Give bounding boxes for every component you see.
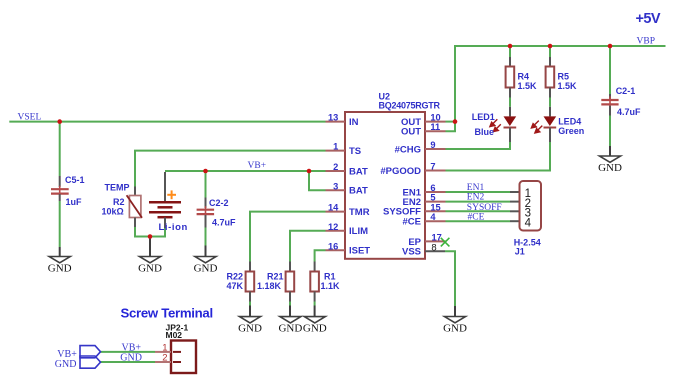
wire EN2 to J1	[446, 201, 511, 203]
label TEMP	[105, 182, 130, 192]
net label VSEL	[18, 112, 42, 122]
svg-text:R5: R5	[558, 71, 570, 81]
pin 6 EN1	[403, 183, 446, 198]
ground under R1	[303, 306, 327, 335]
svg-text:#CE: #CE	[403, 217, 421, 228]
node junction VSEL / C5-1 tap	[57, 119, 62, 124]
svg-text:16: 16	[328, 241, 338, 251]
node junction OUT pins	[453, 119, 458, 124]
wire rail to R5	[549, 46, 551, 57]
svg-text:EN1: EN1	[467, 183, 485, 193]
resistor R5	[546, 57, 577, 98]
ground under VSS	[443, 306, 467, 334]
svg-text:TEMP: TEMP	[105, 182, 130, 192]
svg-text:4.7uF: 4.7uF	[617, 107, 641, 117]
svg-text:10: 10	[430, 113, 440, 123]
pin 12 ILIM	[326, 222, 369, 237]
svg-text:Li-ion: Li-ion	[159, 222, 188, 233]
wire VBP rail	[455, 46, 666, 122]
capacitor C5-1	[51, 175, 85, 207]
thermistor R2	[102, 187, 143, 228]
resistor R22	[227, 262, 255, 302]
svg-text:9: 9	[430, 140, 435, 150]
svg-text:7: 7	[430, 162, 435, 172]
pin 14 TMR	[326, 203, 370, 218]
LED LED4 Green	[531, 107, 584, 142]
svg-text:M02: M02	[166, 330, 183, 340]
svg-text:4: 4	[525, 217, 532, 229]
svg-text:1uF: 1uF	[66, 197, 83, 207]
svg-text:GND: GND	[303, 322, 327, 334]
svg-text:GND: GND	[120, 353, 142, 364]
svg-text:8: 8	[431, 243, 436, 254]
net label VB+	[248, 161, 267, 171]
resistor R4	[506, 57, 537, 98]
net label #CE	[468, 212, 485, 222]
svg-text:Blue: Blue	[475, 127, 495, 137]
wire ILIM to R21	[290, 231, 326, 262]
svg-text:GND: GND	[238, 322, 262, 334]
svg-text:2: 2	[333, 162, 338, 172]
wire EN1 to J1	[446, 191, 511, 193]
svg-text:#CHG: #CHG	[395, 144, 421, 155]
svg-text:15: 15	[430, 202, 440, 212]
wire ISET to R1	[315, 250, 326, 261]
pin 16 ISET	[326, 241, 371, 256]
wire LED1 to pin9 #CHG	[446, 142, 511, 149]
wire R22 to ground	[249, 302, 251, 306]
svg-text:GND: GND	[194, 262, 218, 274]
battery BT Li-ion	[149, 172, 188, 233]
pin 3 BAT	[326, 181, 369, 196]
resistor R1	[310, 262, 340, 302]
svg-text:1: 1	[333, 142, 338, 152]
svg-text:R4: R4	[518, 71, 530, 81]
LED LED1 Blue	[472, 107, 516, 142]
wire R1 to ground	[314, 302, 316, 306]
power label +5V	[636, 11, 661, 27]
svg-text:ISET: ISET	[349, 246, 370, 257]
svg-text:C2-2: C2-2	[209, 198, 229, 208]
svg-text:#PGOOD: #PGOOD	[380, 166, 421, 177]
svg-text:14: 14	[328, 203, 339, 213]
wire C2-1 lower	[609, 116, 611, 147]
wire OUT pin11 riser	[446, 122, 456, 132]
net label VBP	[637, 37, 655, 47]
svg-text:#CE: #CE	[468, 212, 485, 222]
svg-text:GND: GND	[55, 359, 77, 370]
ground under R22	[238, 306, 262, 335]
svg-text:11: 11	[430, 122, 440, 132]
wire BAT pin3 jog	[309, 171, 326, 190]
op-amp U2 body BQ24075RGTR	[345, 92, 441, 259]
resistor R21	[257, 262, 294, 302]
pin 17 EP	[408, 232, 445, 248]
svg-text:C2-1: C2-1	[616, 86, 636, 96]
svg-text:R2: R2	[113, 197, 125, 207]
ground under battery	[138, 237, 162, 275]
svg-text:EN2: EN2	[467, 193, 485, 203]
svg-text:J1: J1	[515, 246, 525, 256]
wire #CE to J1	[446, 220, 511, 222]
pin 7 #PGOOD	[380, 162, 445, 177]
svg-text:GND: GND	[598, 162, 622, 174]
svg-text:BAT: BAT	[349, 186, 368, 197]
svg-text:GND: GND	[138, 262, 162, 274]
wire R5 to LED4	[549, 98, 551, 107]
ground under C2-1	[598, 146, 622, 174]
svg-text:IN: IN	[349, 117, 359, 128]
global label GND	[55, 356, 101, 370]
pin 11 OUT	[401, 122, 446, 137]
svg-text:LED1: LED1	[472, 112, 495, 122]
connector JP2-1 M02	[155, 322, 196, 373]
svg-text:12: 12	[328, 222, 338, 232]
node junction rail R5 top	[548, 44, 553, 49]
svg-text:6: 6	[430, 183, 435, 193]
svg-text:ILIM: ILIM	[349, 226, 368, 237]
svg-text:4: 4	[430, 212, 436, 222]
svg-text:SYSOFF: SYSOFF	[467, 203, 502, 213]
svg-text:TS: TS	[349, 146, 361, 157]
label Screw Terminal	[121, 306, 213, 321]
wire JP2 pin1	[100, 351, 156, 353]
svg-text:10kΩ: 10kΩ	[102, 206, 124, 216]
ground under R21	[278, 306, 302, 335]
svg-text:2: 2	[162, 353, 167, 364]
svg-text:3: 3	[333, 181, 338, 191]
svg-text:C5-1: C5-1	[65, 175, 85, 185]
svg-text:VB+: VB+	[248, 161, 267, 171]
pin 1 TS	[326, 142, 362, 157]
net label EN2	[467, 193, 485, 203]
net label VB+ (wire 1)	[122, 342, 142, 353]
wire SYSOFF to J1	[446, 210, 511, 212]
wire rail to C2-1	[609, 46, 611, 94]
wire OUT pin10 to rail	[446, 121, 456, 123]
svg-text:GND: GND	[443, 322, 467, 334]
global label VB+	[57, 346, 100, 360]
wire VSEL to pin 13	[9, 121, 325, 123]
pin 13 IN	[326, 113, 359, 128]
svg-text:1.1K: 1.1K	[321, 281, 341, 291]
wire JP2 pin2	[100, 361, 156, 363]
pin 5 EN2	[403, 193, 446, 208]
svg-text:GND: GND	[278, 322, 302, 334]
pin 10 OUT	[401, 113, 446, 128]
node junction VB+ BAT jog	[307, 169, 312, 174]
wire C2-2 upper	[205, 171, 207, 198]
node junction rail C2-1 top	[608, 44, 613, 49]
wire TS to thermistor	[135, 151, 326, 187]
svg-text:13: 13	[328, 113, 338, 123]
svg-text:VSS: VSS	[402, 247, 421, 258]
wire thermistor to bottom node	[135, 227, 165, 237]
svg-text:TMR: TMR	[349, 207, 370, 218]
wire VB+ rail	[165, 170, 326, 172]
node junction battery GND	[148, 234, 153, 239]
node junction VB+ C2-2 tap	[203, 169, 208, 174]
pin 4 #CE	[403, 212, 446, 227]
net label SYSOFF	[467, 203, 502, 213]
wire C5-1 lower	[59, 201, 61, 247]
net label GND (wire 2)	[120, 353, 142, 364]
node junction rail R4 top	[508, 44, 513, 49]
wire R4 to LED1	[509, 98, 511, 107]
svg-text:Screw Terminal: Screw Terminal	[121, 306, 213, 321]
connector J1 H-2.54	[510, 181, 541, 256]
svg-text:OUT: OUT	[401, 127, 421, 138]
wire LED4 to pin7 #PGOOD	[446, 142, 551, 171]
svg-text:1.18K: 1.18K	[257, 281, 282, 291]
svg-text:5: 5	[430, 193, 435, 203]
ground under C2-2	[194, 246, 218, 275]
capacitor C2-1	[601, 86, 641, 117]
svg-text:47K: 47K	[227, 281, 244, 291]
pin 2 BAT	[326, 162, 369, 177]
capacitor C2-2	[197, 198, 236, 228]
wire rail to R4	[509, 46, 511, 57]
wire R21 to ground	[289, 302, 291, 306]
svg-text:BQ24075RGTR: BQ24075RGTR	[379, 101, 441, 111]
svg-text:1.5K: 1.5K	[518, 81, 538, 91]
pin 8 VSS	[402, 243, 445, 258]
wire C2-2 lower	[205, 228, 207, 246]
pin 15 SYSOFF	[383, 202, 446, 217]
svg-text:GND: GND	[48, 262, 72, 274]
wire C5-1 upper	[59, 122, 61, 176]
svg-text:BAT: BAT	[349, 166, 368, 177]
svg-text:+5V: +5V	[636, 11, 661, 27]
net label EN1	[467, 183, 485, 193]
svg-text:17: 17	[431, 232, 441, 242]
pin 9 #CHG	[395, 140, 446, 155]
wire VSS to ground	[445, 251, 455, 306]
svg-text:Green: Green	[558, 126, 584, 136]
no-connect X on EP	[441, 238, 450, 247]
svg-text:1.5K: 1.5K	[558, 81, 578, 91]
wire TMR to R22	[250, 212, 326, 262]
svg-text:4.7uF: 4.7uF	[212, 218, 236, 228]
ground under C5-1	[48, 247, 72, 274]
